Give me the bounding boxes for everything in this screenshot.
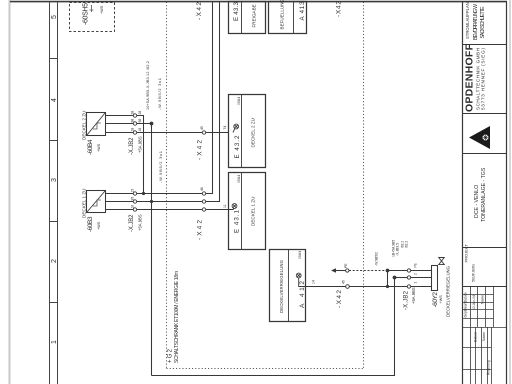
svg-text:45: 45 bbox=[200, 126, 204, 130]
scan page right edge bbox=[509, 0, 511, 384]
svg-text:BEFUELLUNG: BEFUELLUNG bbox=[280, 0, 285, 30]
svg-text:E 43.3: E 43.3 bbox=[233, 1, 240, 21]
svg-text:+G2: +G2 bbox=[168, 348, 174, 363]
svg-text:Änderung: Änderung bbox=[487, 360, 491, 375]
svg-text:DECKEL 2 ZU: DECKEL 2 ZU bbox=[82, 111, 87, 140]
svg-text:TONERANLAGE - TGS: TONERANLAGE - TGS bbox=[481, 167, 487, 222]
svg-text:STROMLAUFPLAN: STROMLAUFPLAN bbox=[465, 2, 470, 39]
svg-text:18: 18 bbox=[138, 128, 142, 132]
svg-text:Datum: Datum bbox=[474, 332, 478, 342]
PLC output A 412 indicator bbox=[296, 273, 305, 286]
svg-text:16: 16 bbox=[131, 205, 135, 209]
terminal -X.JB2:1 bottom bbox=[407, 285, 410, 288]
svg-text:FREIGABE: FREIGABE bbox=[252, 4, 257, 27]
wire -60B4 signal to -X42 and E43.2 bbox=[137, 132, 229, 134]
title block divider logo/project bbox=[462, 153, 506, 155]
wire PE to -X.JB2 bbox=[388, 270, 408, 272]
junction dot bus1 to -60B3 wire bbox=[142, 192, 145, 195]
svg-text:95: 95 bbox=[131, 197, 135, 201]
svg-text:+WS: +WS bbox=[97, 143, 101, 152]
wire terminal to valve coil 2 bbox=[411, 277, 432, 279]
pull switch -60SH5 dashed box bbox=[70, 3, 115, 32]
frame column strip line 1 bbox=[49, 2, 51, 384]
PLC output card A 412 box bbox=[270, 250, 306, 322]
title block divider project/projekt bbox=[462, 247, 506, 249]
svg-text:DECKEL 1 ZU: DECKEL 1 ZU bbox=[251, 197, 256, 226]
junction dot bus2 top bbox=[150, 122, 154, 126]
svg-text:Bearb.: Bearb. bbox=[464, 300, 468, 310]
wire -60B3 pin1 to terminal bbox=[106, 193, 134, 195]
svg-text:Gepr.: Gepr. bbox=[464, 309, 468, 317]
wire -60B4 pin2 to terminal bbox=[106, 123, 134, 125]
svg-text:-W.9B5/2 3x1: -W.9B5/2 3x1 bbox=[157, 77, 162, 110]
frame top border bbox=[10, 1, 507, 3]
title table grid bbox=[462, 287, 506, 384]
svg-text:11: 11 bbox=[223, 204, 227, 208]
svg-text:-W.9B5/2: -W.9B5/2 bbox=[375, 252, 379, 266]
svg-text:OPDENHOFF: OPDENHOFF bbox=[464, 43, 476, 112]
PE earth arrow stub bbox=[331, 268, 346, 273]
svg-text:-60SH5: -60SH5 bbox=[83, 3, 90, 25]
svg-text:3: 3 bbox=[51, 178, 58, 182]
terminal -X.JB2:2 bottom bbox=[407, 276, 410, 279]
svg-text:SACKSCHUETTE: SACKSCHUETTE bbox=[480, 6, 486, 39]
junction dot bus2 at -60B3 wire bbox=[150, 200, 153, 203]
svg-text:2: 2 bbox=[414, 273, 418, 275]
wire PE dashed link bbox=[349, 270, 385, 272]
svg-text:28: 28 bbox=[131, 111, 135, 115]
svg-text:+WS: +WS bbox=[439, 295, 443, 304]
sensor -60B3 box bbox=[87, 191, 106, 213]
svg-text:/62.2: /62.2 bbox=[405, 241, 409, 248]
wire -60B4 pin3 to terminal bbox=[106, 132, 134, 134]
svg-text:Name: Name bbox=[481, 295, 485, 304]
svg-text:53773 HENNEF (SIEG): 53773 HENNEF (SIEG) bbox=[481, 48, 486, 110]
enclosure +G2 dotted boundary bottom bbox=[363, 2, 365, 368]
svg-text:74: 74 bbox=[223, 126, 227, 130]
svg-text:15: 15 bbox=[131, 189, 135, 193]
junction dot return bbox=[393, 276, 397, 280]
pull switch contact mark bbox=[90, 5, 94, 12]
junction dot PE bbox=[386, 269, 390, 273]
svg-text:-X.JB2: -X.JB2 bbox=[129, 214, 135, 232]
svg-text:DECKELVERRIEGELUNG: DECKELVERRIEGELUNG bbox=[279, 259, 284, 313]
PLC input card E 43.1 box bbox=[229, 173, 266, 250]
svg-text:DECKELVERRIEGELUNG: DECKELVERRIEGELUNG bbox=[446, 265, 451, 317]
terminal -X.JB2:95 bbox=[133, 200, 136, 203]
svg-text:2: 2 bbox=[51, 259, 58, 263]
wire A412 output to valve (main) bbox=[306, 286, 408, 288]
frame column strip line 2 bbox=[57, 2, 59, 384]
wire -60B3 pin2 to -X42 and riser bbox=[137, 201, 203, 203]
PLC input card E 43.3 box bbox=[229, 2, 266, 34]
sensor -60B4 box bbox=[87, 113, 106, 136]
terminal -X42:46 bbox=[202, 192, 205, 195]
svg-text:A 413: A 413 bbox=[299, 1, 306, 21]
wire riser to sheet edge 1 bbox=[206, 2, 213, 194]
frame tick 4 bbox=[49, 302, 58, 304]
wire riser to sheet edge 2 bbox=[206, 2, 220, 202]
terminal pin labels group A right bbox=[138, 111, 142, 132]
svg-text:1: 1 bbox=[51, 340, 58, 344]
PLC input E 43.2 indicator bbox=[233, 124, 239, 132]
svg-text:05U4: 05U4 bbox=[237, 97, 241, 105]
frame tick 2 bbox=[49, 140, 58, 142]
frame tick 1 bbox=[49, 58, 58, 60]
svg-text:98: 98 bbox=[131, 119, 135, 123]
terminal -X.JB2:15 bbox=[133, 192, 136, 195]
PLC input card E 43.2 box bbox=[229, 95, 266, 168]
wire terminal to valve coil 1 bbox=[411, 286, 432, 288]
svg-text:DECKEL 2 ZU: DECKEL 2 ZU bbox=[251, 118, 256, 147]
PLC input E 43.1 indicator bbox=[232, 204, 237, 209]
svg-text:05U4: 05U4 bbox=[298, 251, 302, 259]
svg-text:1: 1 bbox=[414, 282, 418, 284]
frame tick 3 bbox=[49, 221, 58, 223]
svg-text:98: 98 bbox=[138, 119, 142, 123]
junction dot PE on main wire bbox=[386, 285, 389, 288]
title block right border bbox=[506, 2, 508, 384]
svg-text:18: 18 bbox=[131, 128, 135, 132]
svg-text:28: 28 bbox=[138, 111, 142, 115]
wire terminal to valve PE bbox=[411, 270, 432, 272]
terminal -X42:47 bbox=[202, 200, 205, 203]
terminal pin labels group A left bbox=[131, 111, 135, 132]
svg-text:-X.JB2: -X.JB2 bbox=[404, 290, 410, 310]
svg-text:E 43.2: E 43.2 bbox=[234, 135, 241, 159]
svg-text:SCHALTSCHRANK ET100M / ENERGIE: SCHALTSCHRANK ET100M / ENERGIE 18m bbox=[174, 271, 180, 363]
title block left border bbox=[462, 2, 464, 384]
wire -60B4 pin1 to terminal bbox=[106, 115, 134, 117]
svg-text:+WS: +WS bbox=[100, 5, 104, 14]
wire -60B3 pin3 to terminal bbox=[106, 209, 134, 211]
svg-text:-W.9B5/2 3x1: -W.9B5/2 3x1 bbox=[158, 150, 163, 183]
scan page left edge bbox=[9, 0, 11, 384]
wire -60B3 pin2 to terminal bbox=[106, 201, 134, 203]
svg-text:DECKEL 1 ZU: DECKEL 1 ZU bbox=[82, 189, 87, 218]
svg-text:DCE - VENLO: DCE - VENLO bbox=[474, 185, 480, 218]
svg-text:PE: PE bbox=[414, 263, 418, 267]
terminal pin labels bottom strip bbox=[414, 263, 418, 283]
solenoid valve -60Y2 coil bbox=[432, 266, 438, 291]
svg-text:-X42: -X42 bbox=[336, 1, 343, 17]
svg-text:-X42: -X42 bbox=[336, 290, 343, 308]
wire -60B3 pin3 to E43.1 bbox=[137, 208, 235, 210]
title block divider plan/company bbox=[462, 44, 506, 46]
wire link bus 1 (sensor supply link) bbox=[137, 116, 144, 194]
svg-text:4: 4 bbox=[51, 98, 58, 102]
terminal pin labels group B left bbox=[131, 189, 135, 209]
svg-text:PE: PE bbox=[344, 263, 348, 268]
terminal -X.JB2:98 bbox=[133, 122, 136, 125]
title block divider company/logo bbox=[462, 113, 506, 115]
terminal -X.JB2:PE bottom bbox=[407, 269, 410, 272]
wire link bus 2 (common return) bbox=[137, 124, 152, 376]
svg-text:14: 14 bbox=[312, 280, 316, 284]
terminal -X.JB2:16 bbox=[133, 208, 136, 211]
svg-text:-X.JB2: -X.JB2 bbox=[129, 137, 135, 155]
enclosure +G2 dotted boundary left bbox=[167, 368, 364, 370]
title block divider projekt/table bbox=[462, 286, 506, 288]
svg-text:46: 46 bbox=[200, 187, 204, 191]
svg-text:PROJEKT: PROJEKT bbox=[464, 243, 469, 262]
terminal -X42:48 bbox=[202, 208, 205, 211]
terminal -X.JB2:28 bbox=[133, 114, 136, 117]
svg-text:+WS: +WS bbox=[97, 221, 101, 230]
enclosure +G2 dotted boundary top (cabinet) bbox=[166, 2, 168, 368]
company logo triangle bbox=[469, 126, 490, 149]
terminal -X42:45 bbox=[202, 131, 205, 134]
terminal -X.JB2:18 bbox=[133, 131, 136, 134]
svg-text:45: 45 bbox=[342, 280, 346, 284]
svg-text:10+5A.9B5-X.JB3.12 /62.2: 10+5A.9B5-X.JB3.12 /62.2 bbox=[146, 61, 150, 110]
svg-text:-X42: -X42 bbox=[196, 2, 203, 20]
wire return drop to bottom link bbox=[152, 278, 395, 376]
svg-text:+5A.9BS: +5A.9BS bbox=[138, 214, 143, 231]
svg-text:-60B3: -60B3 bbox=[87, 216, 94, 232]
svg-text:E 43.1: E 43.1 bbox=[234, 209, 241, 233]
svg-text:-X.JB3.5: -X.JB3.5 bbox=[396, 243, 400, 256]
terminal -X42:45 lower bbox=[346, 285, 350, 289]
svg-text:5BJF.IB6s: 5BJF.IB6s bbox=[471, 264, 476, 282]
svg-text:05U4: 05U4 bbox=[237, 175, 241, 183]
svg-text:BEVORRATUNG W: BEVORRATUNG W bbox=[473, 4, 479, 40]
svg-text:-60Y2: -60Y2 bbox=[432, 292, 439, 308]
wire PE drop to main bbox=[387, 271, 389, 287]
svg-text:Name: Name bbox=[482, 332, 486, 341]
svg-text:+5A.9BS: +5A.9BS bbox=[138, 136, 143, 153]
terminal -X42:PE bbox=[346, 269, 349, 272]
svg-text:-60B4: -60B4 bbox=[87, 139, 94, 155]
wire valve return with junction bbox=[395, 277, 408, 279]
PLC output card A 413 box bbox=[269, 2, 307, 34]
wire -60B3 pin1 to -X42 and riser bbox=[137, 193, 203, 195]
svg-text:5: 5 bbox=[51, 15, 58, 19]
solenoid valve -60Y2 valve symbol bbox=[439, 258, 445, 265]
svg-text:+5A.9BS: +5A.9BS bbox=[411, 287, 416, 304]
